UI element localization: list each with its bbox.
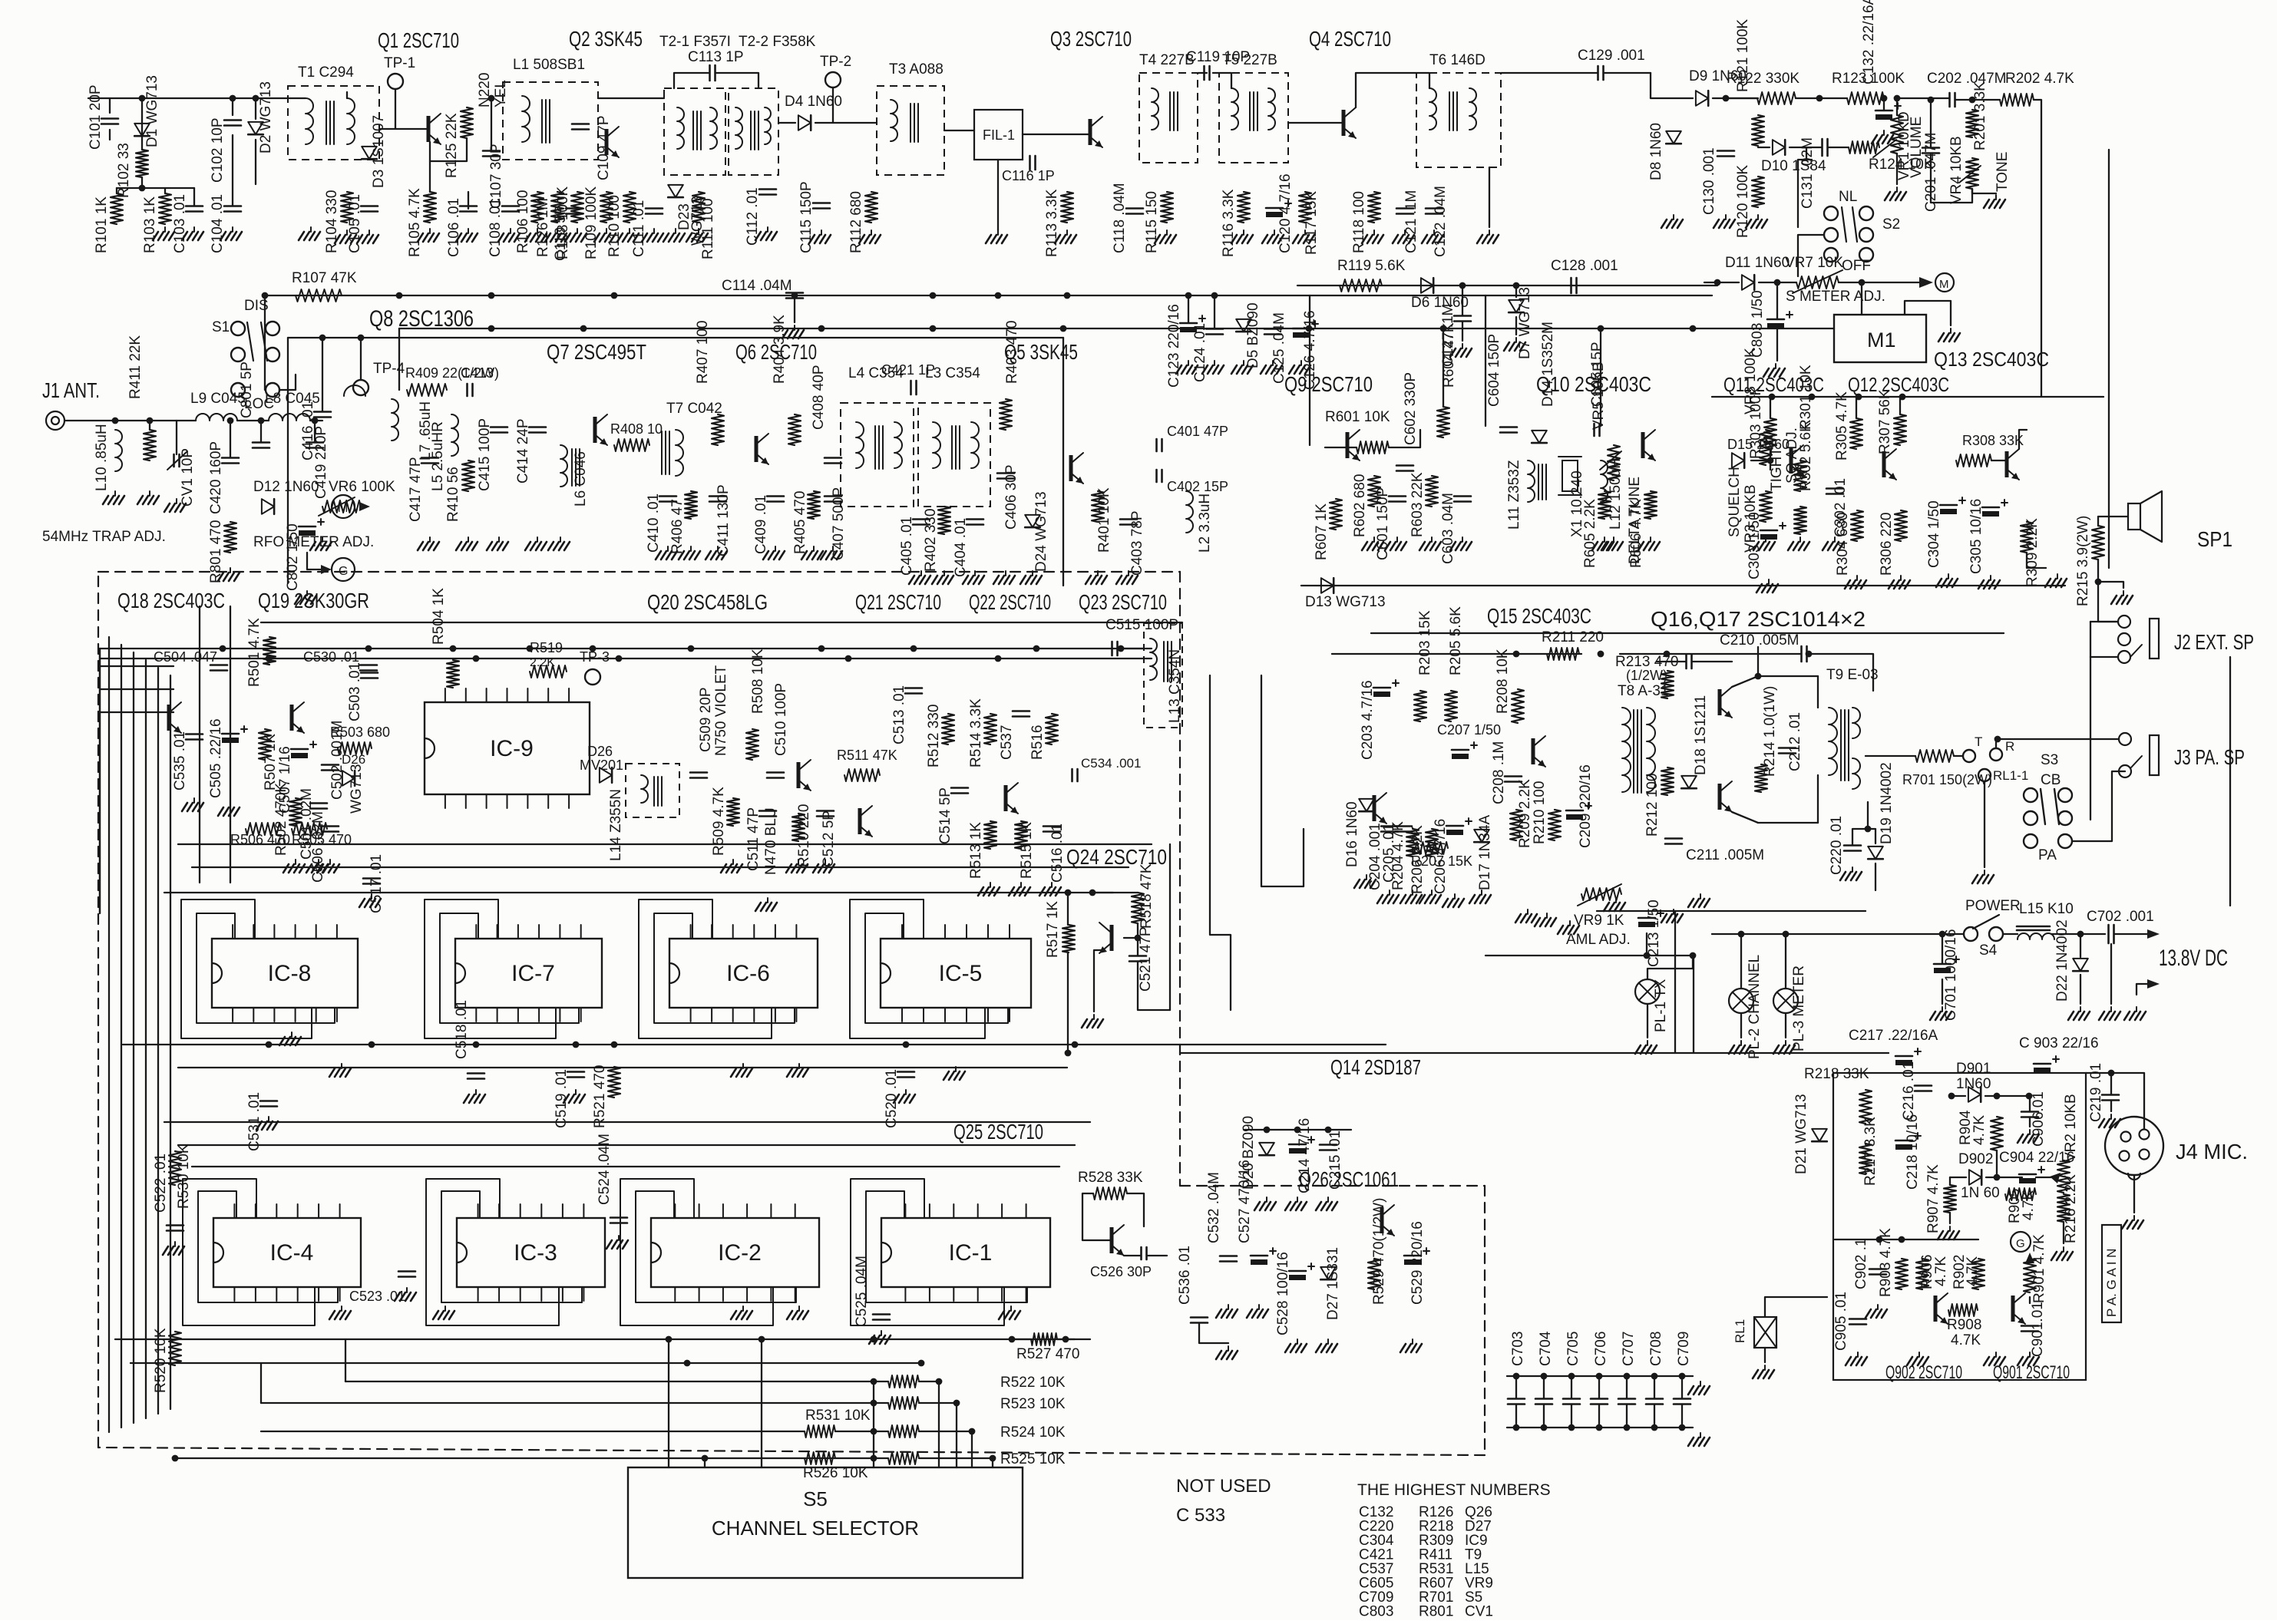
wire	[1942, 934, 1943, 964]
ground	[1740, 1041, 1742, 1045]
svg-text:C706: C706	[1593, 1332, 1609, 1366]
diode D15 1N60	[1732, 453, 1744, 468]
capacitor C530 .01	[360, 664, 377, 666]
wire	[1798, 160, 1812, 227]
svg-text:C529 220/16: C529 220/16	[1409, 1221, 1426, 1305]
svg-text:N470 BLU: N470 BLU	[763, 807, 779, 875]
ground	[1297, 1339, 1298, 1344]
svg-text:R531 10K: R531 10K	[805, 1408, 871, 1424]
resistor R513 1K	[984, 821, 996, 849]
wire	[491, 98, 492, 150]
capacitor C511 47P	[759, 810, 776, 812]
resistor R204 4.7K	[1406, 829, 1419, 857]
svg-text:C704: C704	[1538, 1331, 1554, 1366]
wire	[287, 338, 289, 583]
diode D6 1N60	[1421, 278, 1433, 293]
capacitor C901 .01	[2021, 1325, 2038, 1327]
ground	[1527, 909, 1528, 914]
ground	[1950, 328, 1951, 333]
wire	[1954, 755, 1963, 757]
diode D14 1S352M	[1532, 431, 1547, 443]
svg-text:CV1: CV1	[1465, 1604, 1493, 1620]
capacitor C516 .01	[1043, 825, 1060, 827]
ground	[1373, 537, 1375, 542]
svg-text:DELTA TUNE: DELTA TUNE	[1627, 477, 1643, 564]
capacitor C536 .01	[1191, 1316, 1208, 1319]
wire	[261, 1431, 805, 1432]
resistor R102	[136, 150, 148, 177]
wire	[1740, 1013, 1742, 1038]
diode D13 WG713	[1321, 578, 1333, 593]
wire	[1127, 1193, 1144, 1226]
capacitor C708 .01	[1646, 1398, 1663, 1400]
transistor Q21	[858, 808, 862, 834]
wire	[1198, 72, 1207, 74]
resistor R904 4.7K	[1991, 1117, 2003, 1150]
resistor R504 1K	[447, 660, 459, 688]
svg-text:IC-6: IC-6	[726, 961, 770, 986]
test point TP-4	[353, 380, 368, 395]
svg-text:C202 .047M: C202 .047M	[1927, 71, 2007, 87]
capacitor C537 .04	[1013, 710, 1029, 712]
capacitor C409 .01	[767, 495, 784, 497]
resistor R203 15K	[1414, 691, 1426, 721]
svg-text:R202 4.7K: R202 4.7K	[2005, 71, 2074, 87]
svg-text:R514 3.3K: R514 3.3K	[968, 698, 984, 767]
svg-text:R110 100: R110 100	[606, 195, 623, 257]
wire	[2073, 771, 2125, 841]
svg-text:C509 20P: C509 20P	[698, 687, 714, 752]
svg-text:4.7K: 4.7K	[2021, 1190, 2037, 1220]
resistor R907 4.7K	[1944, 1185, 1956, 1213]
ground	[2136, 1007, 2137, 1012]
resistor R902 4.7K	[1972, 1259, 1985, 1289]
ground	[1785, 1041, 1786, 1045]
potentiometer VR2 10KB	[2057, 1160, 2070, 1193]
wire	[1704, 282, 1739, 283]
routing loop	[441, 1191, 582, 1302]
ground	[1297, 1197, 1298, 1202]
meter M circle	[1935, 273, 1954, 292]
capacitor C905 .01	[1849, 1318, 1866, 1320]
ground	[176, 499, 177, 503]
ground	[1373, 230, 1375, 235]
svg-text:R116 3.3K: R116 3.3K	[1221, 189, 1237, 257]
svg-text:C208 .1M: C208 .1M	[1491, 741, 1507, 804]
svg-text:C218 10/16: C218 10/16	[1905, 1114, 1921, 1190]
transistor Q2 3SK45	[605, 129, 609, 155]
wire	[1507, 1375, 1693, 1377]
resistor R506 470	[246, 823, 281, 835]
resistor R512 330	[942, 714, 954, 744]
wire	[1986, 1177, 2022, 1178]
IC-9 pins	[444, 688, 446, 702]
svg-text:C803: C803	[1359, 1604, 1393, 1620]
wire	[255, 98, 256, 119]
resistor R517 1K	[1062, 925, 1075, 952]
resistor R107 47K	[296, 289, 342, 302]
svg-text:4.7K: 4.7K	[1951, 1332, 1981, 1348]
svg-text:C101 20P: C101 20P	[88, 84, 104, 150]
svg-text:R205 5.6K: R205 5.6K	[1448, 606, 1464, 675]
capacitor C128 .001	[1570, 278, 1572, 293]
svg-text:C216 .01: C216 .01	[1901, 1061, 1917, 1121]
resistor R526 10K	[805, 1452, 835, 1464]
transistor Q3	[1089, 119, 1092, 145]
ground	[832, 546, 834, 551]
mic amp box	[1833, 1073, 2086, 1380]
svg-text:R212 100: R212 100	[1644, 774, 1661, 837]
svg-text:R521 470: R521 470	[592, 1065, 608, 1128]
ground	[1396, 537, 1398, 542]
capacitor C535 .01	[186, 733, 203, 735]
ground	[1433, 230, 1435, 235]
svg-text:D901: D901	[1956, 1061, 1991, 1077]
transistor Q15	[1532, 738, 1535, 764]
wire	[109, 98, 111, 113]
wire	[264, 295, 266, 390]
svg-text:CHANNEL SELECTOR: CHANNEL SELECTOR	[712, 1517, 919, 1540]
svg-text:TP-4: TP-4	[373, 361, 405, 377]
wire	[1389, 430, 1420, 447]
svg-text:Q7 2SC495T: Q7 2SC495T	[547, 340, 646, 364]
svg-text:R121 100K: R121 100K	[1735, 19, 1751, 92]
capacitor C501 .02M	[310, 802, 327, 804]
svg-text:D10 1S84: D10 1S84	[1761, 158, 1826, 174]
svg-text:T: T	[1975, 734, 1982, 749]
wire	[192, 866, 1129, 868]
wire	[1597, 910, 1866, 912]
resistor R602 680	[1368, 476, 1380, 507]
capacitor C701 1000/16	[1934, 963, 1951, 965]
wire	[1646, 933, 1647, 956]
wire	[1654, 1376, 1655, 1398]
wire	[1796, 97, 1847, 99]
transistor Q14 driver	[1373, 795, 1376, 821]
wire	[1654, 1404, 1655, 1428]
ground	[560, 537, 561, 542]
svg-text:D5 BZ090: D5 BZ090	[1245, 302, 1261, 368]
svg-text:R: R	[2005, 739, 2014, 754]
wire	[1984, 781, 1985, 867]
ground	[1489, 230, 1490, 235]
svg-text:C129 .001: C129 .001	[1578, 48, 1645, 64]
ground	[232, 227, 233, 232]
wire	[164, 188, 166, 193]
inductor L14 Z355N	[626, 764, 679, 817]
wire	[1757, 647, 1759, 676]
svg-text:13.8V DC: 13.8V DC	[2159, 946, 2228, 971]
svg-text:C602 330P: C602 330P	[1403, 372, 1419, 445]
svg-text:C502 .001M: C502 .001M	[329, 720, 345, 800]
capacitor C304 1/50	[1940, 504, 1957, 507]
ground	[1097, 571, 1099, 576]
wire	[1776, 282, 1778, 319]
wire	[108, 637, 110, 1432]
svg-text:S1: S1	[212, 319, 230, 335]
wire	[1169, 844, 1171, 1010]
svg-text:R406 47: R406 47	[669, 499, 686, 554]
ground	[1700, 1381, 1701, 1386]
svg-text:NOT USED: NOT USED	[1176, 1476, 1271, 1497]
svg-text:R216 2.2K: R216 2.2K	[2063, 1174, 2079, 1243]
wire	[1214, 295, 1215, 328]
wire	[2051, 933, 2105, 935]
ground	[1775, 364, 1776, 368]
capacitor C604 150P	[1500, 426, 1517, 428]
svg-text:L13 C354N: L13 C354N	[1167, 649, 1183, 723]
ground	[1327, 1197, 1329, 1202]
wire	[307, 553, 322, 569]
diode D1 WG713	[134, 124, 150, 136]
svg-text:C108 .01: C108 .01	[487, 198, 504, 257]
svg-text:Q15 2SC403C: Q15 2SC403C	[1487, 604, 1591, 628]
wire	[314, 421, 316, 442]
svg-text:R519: R519	[530, 640, 563, 655]
capacitor C406 30P	[997, 472, 1014, 474]
resistor R212 100	[1661, 767, 1674, 795]
resistor R505 470	[292, 823, 327, 835]
svg-text:Q23 2SC710: Q23 2SC710	[1079, 590, 1167, 614]
capacitor C123 220/16	[1180, 322, 1197, 325]
ground	[881, 1331, 882, 1335]
wire	[322, 338, 323, 411]
wire	[133, 652, 134, 1423]
ground	[1093, 1015, 1095, 1019]
svg-text:R901 4.7K: R901 4.7K	[2031, 1234, 2047, 1303]
wire	[345, 1381, 874, 1382]
svg-text:TP-1: TP-1	[384, 55, 415, 71]
capacitor C405 .01	[913, 518, 930, 520]
svg-text:C513 .01: C513 .01	[891, 685, 907, 744]
ground	[1412, 1339, 1413, 1344]
capacitor C121 .1M	[1396, 207, 1413, 210]
capacitor C216 .01	[1915, 1084, 1932, 1087]
svg-text:R512 330: R512 330	[926, 705, 942, 767]
svg-text:R518 47K: R518 47K	[1138, 863, 1155, 929]
svg-text:C217 .22/16A: C217 .22/16A	[1849, 1028, 1938, 1044]
IC row 1 boxes	[212, 939, 358, 1008]
svg-text:S4: S4	[1979, 942, 1998, 959]
wire	[288, 337, 1063, 338]
squelch pots	[1760, 430, 1772, 465]
svg-text:WG713: WG713	[349, 764, 365, 814]
ground	[577, 229, 578, 233]
ground	[174, 1242, 176, 1246]
wire	[919, 1381, 939, 1382]
wire	[1515, 1404, 1517, 1428]
svg-text:C902 .1: C902 .1	[1853, 1238, 1869, 1289]
wire	[956, 1403, 957, 1467]
wire	[2080, 934, 2081, 957]
svg-text:T8 A-31: T8 A-31	[1618, 683, 1669, 699]
svg-text:4.7K: 4.7K	[1971, 1115, 1988, 1145]
ground	[798, 1306, 800, 1311]
trimmer CV1 10P	[173, 454, 175, 467]
capacitor C403 78P	[1120, 518, 1137, 520]
wire	[1325, 447, 1357, 448]
svg-text:R115 150: R115 150	[1144, 191, 1160, 253]
resistor R410 56	[462, 460, 474, 491]
ground	[2029, 1130, 2031, 1134]
capacitor C215 .01	[1320, 1144, 1337, 1146]
transistor Q12	[1882, 451, 1886, 477]
svg-text:C118 .04M: C118 .04M	[1112, 183, 1128, 253]
svg-text:R208 10K: R208 10K	[1495, 649, 1511, 714]
wire	[992, 1458, 993, 1467]
wire	[715, 73, 758, 88]
capacitor C303 1/50	[1760, 530, 1777, 532]
ground	[537, 229, 538, 233]
svg-text:C707: C707	[1621, 1332, 1637, 1366]
resistor R516	[1046, 714, 1058, 744]
wire	[1371, 632, 2004, 634]
transistor Q19	[290, 705, 294, 731]
svg-text:C115 150P: C115 150P	[798, 181, 815, 253]
ground	[1857, 1352, 1859, 1357]
transistor Q25	[1110, 1227, 1114, 1253]
svg-text:R411 22K: R411 22K	[127, 335, 144, 399]
resistor R520 10K	[169, 1332, 181, 1365]
wire	[2029, 1297, 2031, 1303]
svg-text:R511 47K: R511 47K	[837, 748, 897, 763]
svg-text:R105 4.7K: R105 4.7K	[407, 188, 423, 257]
ground	[1647, 1041, 1648, 1045]
resistor R112 680	[865, 192, 877, 223]
svg-text:R111 100: R111 100	[700, 198, 716, 259]
ground	[1366, 875, 1367, 880]
wire	[1118, 648, 1144, 649]
IC-1 pins	[904, 1204, 906, 1218]
wire	[1758, 147, 1770, 148]
wire	[674, 73, 709, 88]
ground	[1243, 361, 1244, 365]
svg-text:T3 A088: T3 A088	[889, 61, 944, 78]
transistor Q11	[1790, 447, 1793, 474]
resistor R208 10K	[1512, 689, 1524, 723]
svg-text:Q18 2SC403C: Q18 2SC403C	[117, 589, 225, 612]
capacitor C131 .02M	[1821, 139, 1823, 156]
lamp PL-1 TX	[1635, 979, 1660, 1004]
ground	[429, 537, 431, 542]
resistor R701 150(2W)	[1915, 750, 1954, 762]
svg-text:C211 .005M: C211 .005M	[1686, 847, 1764, 863]
capacitor C503 .01	[361, 672, 378, 674]
ground	[2057, 574, 2058, 579]
wire	[1899, 397, 1901, 414]
transistor Q1	[427, 116, 431, 142]
ground	[871, 230, 872, 235]
svg-text:C411 130P: C411 130P	[715, 484, 732, 556]
svg-text:R118 100: R118 100	[1351, 191, 1367, 253]
routing loop	[654, 913, 795, 1023]
wire	[1905, 301, 1951, 325]
svg-text:R120 100K: R120 100K	[1735, 165, 1751, 238]
wire	[1301, 585, 2065, 586]
ground	[732, 860, 734, 864]
capacitor C902 .1	[1869, 1268, 1886, 1270]
svg-text:C505 .22/16: C505 .22/16	[208, 718, 224, 798]
wire	[2090, 656, 2118, 658]
svg-text:C525 .04M: C525 .04M	[854, 1256, 870, 1327]
wire	[100, 665, 174, 667]
ground	[1010, 1306, 1012, 1311]
svg-text:Q22 2SC710: Q22 2SC710	[969, 590, 1051, 614]
svg-text:C209 220/16: C209 220/16	[1578, 764, 1594, 848]
svg-text:IC-5: IC-5	[939, 961, 983, 986]
svg-text:IC-4: IC-4	[270, 1240, 314, 1266]
capacitor C218 10/16	[1895, 1140, 1912, 1142]
capacitor C527 470/16	[1251, 1255, 1267, 1257]
inductor L9 C045	[196, 414, 237, 421]
svg-text:S METER ADJ.: S METER ADJ.	[1786, 289, 1885, 305]
capacitor C505 .22/16	[222, 733, 239, 735]
svg-text:C125 .04M: C125 .04M	[1271, 312, 1287, 384]
svg-text:C901.01: C901.01	[2030, 1302, 2046, 1357]
svg-text:D8 1N60: D8 1N60	[1648, 123, 1664, 180]
svg-text:C503 .01: C503 .01	[347, 662, 363, 721]
wire	[178, 1144, 1075, 1146]
wire	[1188, 295, 1189, 323]
resistor R106 100	[531, 192, 544, 223]
capacitor C709 .01	[1674, 1398, 1690, 1400]
svg-text:R515 1K: R515 1K	[1019, 822, 1035, 879]
wire	[100, 711, 174, 713]
wire	[1785, 1013, 1786, 1038]
resistor R906 4.7K	[1916, 1259, 1928, 1289]
resistor R531 10K	[805, 1425, 835, 1438]
svg-text:R217 3.3K: R217 3.3K	[1862, 1117, 1879, 1186]
ground	[149, 491, 150, 496]
capacitor C104 .01	[224, 205, 241, 207]
svg-text:L6 C046: L6 C046	[573, 451, 589, 507]
wire	[1681, 1404, 1683, 1428]
capacitor C110 5P	[566, 207, 583, 210]
svg-text:C207 1/50: C207 1/50	[1437, 722, 1501, 738]
svg-text:R405 470: R405 470	[792, 491, 808, 554]
ground	[667, 546, 669, 551]
capacitor C204 .001	[1381, 825, 1398, 827]
resistor R515 1K	[1015, 821, 1027, 849]
svg-text:C106 .01: C106 .01	[446, 198, 462, 257]
svg-text:R513 1K: R513 1K	[968, 822, 984, 879]
wire	[1866, 755, 1915, 757]
diode D20 BZ090	[1259, 1143, 1274, 1155]
svg-text:Q26 2SC1061: Q26 2SC1061	[1299, 1167, 1399, 1191]
svg-text:C709: C709	[1676, 1332, 1692, 1366]
svg-text:2.2K: 2.2K	[530, 656, 555, 669]
wire	[1692, 661, 1732, 662]
svg-text:SQUELCH: SQUELCH	[1727, 467, 1743, 537]
ground	[629, 229, 630, 233]
ground	[1304, 230, 1306, 235]
wire	[2003, 933, 2018, 935]
ground	[944, 571, 945, 576]
wire	[1828, 147, 1849, 148]
ground	[510, 229, 511, 233]
wire	[170, 675, 171, 1409]
svg-text:1N60: 1N60	[1956, 1076, 1991, 1092]
capacitor C207 1/50	[1452, 749, 1469, 751]
wire	[1868, 829, 1875, 843]
wire	[1288, 122, 1342, 124]
svg-text:R408 10: R408 10	[610, 421, 663, 437]
diode D26 MV201	[600, 767, 612, 783]
resistor R601 10K	[1357, 441, 1389, 454]
wire	[1094, 950, 1101, 1012]
wire	[1012, 1338, 1031, 1340]
wire	[1571, 1404, 1572, 1428]
